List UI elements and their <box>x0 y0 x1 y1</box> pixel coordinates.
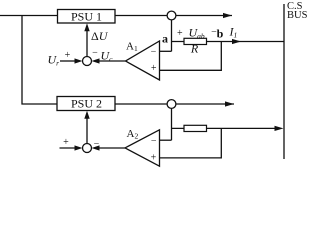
svg-text:+: + <box>151 63 157 74</box>
svg-text:−: − <box>151 136 157 147</box>
PSU 1 <box>58 9 116 23</box>
wire: ch2 ref input arrow shaft <box>60 147 77 149</box>
svg-text:BUS: BUS <box>287 10 308 21</box>
wire: PSU 2 output <box>115 103 234 105</box>
svg-text:−: − <box>94 139 100 150</box>
wire: PSU2 error arrow shaft <box>86 114 88 144</box>
wire: left branch vertical to PSU 2 <box>22 16 57 105</box>
wire: shunt wire ch2 to bus <box>172 127 277 129</box>
wire: Ur input arrow shaft <box>60 60 76 62</box>
svg-text:PSU 2: PSU 2 <box>71 97 102 111</box>
wire: A2 output arrow shaft <box>98 147 125 149</box>
op-amp U1 (A1) <box>126 41 160 80</box>
svg-text:b: b <box>217 27 224 41</box>
arrowhead: error into PSU2 <box>84 111 89 119</box>
svg-text:+: + <box>63 137 69 148</box>
wire: Uc arrow shaft from A1 output <box>98 60 126 62</box>
svg-text:a: a <box>162 31 168 45</box>
svg-text:−: − <box>151 47 157 58</box>
node: C.S bus line <box>283 4 285 159</box>
svg-text:PSU 1: PSU 1 <box>71 9 102 23</box>
arrowhead: PSU1 output <box>223 13 232 18</box>
svg-text:−: − <box>92 48 98 59</box>
wire: node ch2 drop to A2 inverting input <box>171 108 173 140</box>
summing junction ch1 <box>83 57 92 66</box>
wire: feedback to + input A2 <box>160 128 222 158</box>
wire: DeltaU arrow shaft <box>86 26 88 57</box>
svg-text:R: R <box>190 42 199 56</box>
op-amp U2 (A2) <box>125 130 160 166</box>
arrowhead: Uc into summing ch1 <box>92 58 100 63</box>
svg-text:ΔU: ΔU <box>91 29 109 43</box>
svg-text:+: + <box>65 50 71 61</box>
wire: node ch1 drop to node a <box>171 20 173 52</box>
wire: left input to PSU 1 <box>0 15 58 17</box>
summing junction ch2 <box>83 144 92 153</box>
svg-text:+: + <box>151 153 157 164</box>
node ch1 (output tap) <box>167 11 176 20</box>
PSU 2 <box>57 97 115 111</box>
arrowhead: ch2 wire into bus <box>275 126 284 131</box>
wire: inverting input A2 <box>160 139 172 141</box>
arrowhead: DeltaU into PSU1 <box>84 23 89 31</box>
wire: node b feedback to + input A1 <box>160 42 222 71</box>
wire: inverting input A1 <box>160 50 172 52</box>
wire: PSU 1 output <box>115 15 232 17</box>
arrowhead: Ur into summing ch1 <box>75 58 83 63</box>
wire: a-b measuring wire to bus <box>172 41 285 43</box>
resistor channel 2 <box>184 125 207 131</box>
resistor R (channel 1) <box>184 38 207 44</box>
arrowhead: current I1 on a-b wire <box>232 39 241 44</box>
svg-text:+: + <box>177 28 183 39</box>
arrowhead: A2 out into summing ch2 <box>92 145 100 150</box>
node ch2 (output tap) <box>167 100 176 109</box>
arrowhead: ref into summing ch2 <box>75 145 83 150</box>
arrowhead: PSU2 output <box>225 101 234 106</box>
